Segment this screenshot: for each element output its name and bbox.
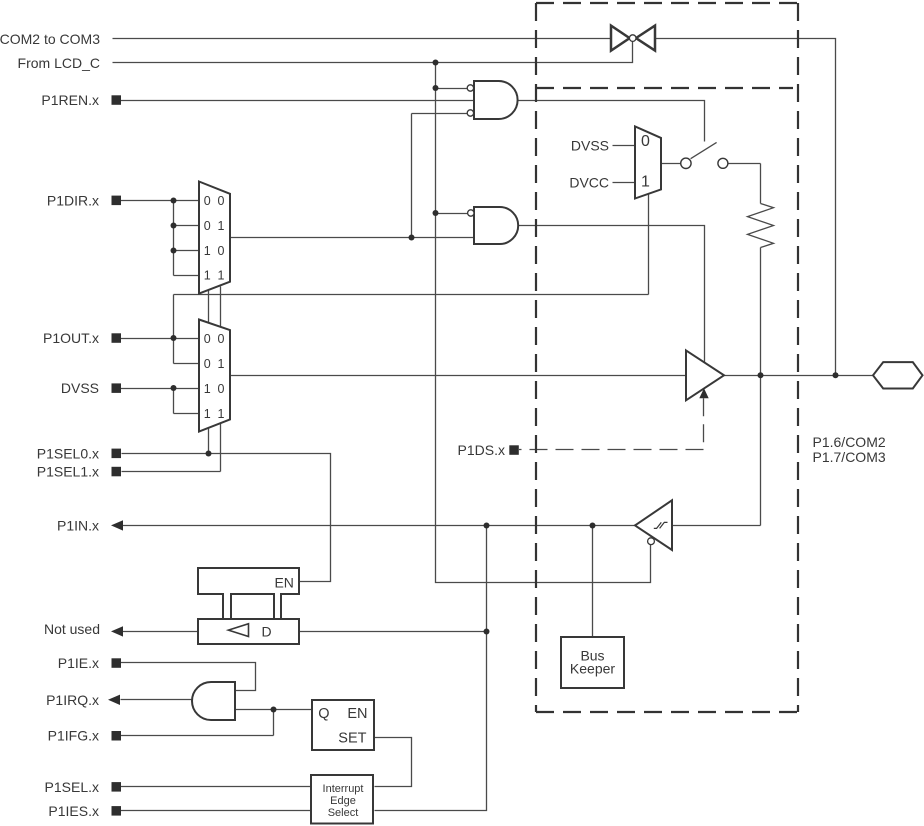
svg-text:1: 1 — [204, 244, 211, 258]
svg-text:DVSS: DVSS — [571, 138, 609, 154]
svg-text:1: 1 — [218, 407, 225, 421]
svg-text:P1IN.x: P1IN.x — [57, 517, 99, 533]
svg-text:P1IES.x: P1IES.x — [48, 803, 99, 819]
svg-text:COM2 to COM3: COM2 to COM3 — [0, 31, 100, 47]
svg-text:0: 0 — [218, 382, 225, 396]
svg-text:From LCD_C: From LCD_C — [18, 55, 100, 71]
svg-text:0: 0 — [204, 357, 211, 371]
svg-text:P1DS.x: P1DS.x — [458, 442, 505, 458]
svg-text:P1.6/COM2: P1.6/COM2 — [813, 434, 886, 450]
svg-text:0: 0 — [204, 332, 211, 346]
svg-text:P1DIR.x: P1DIR.x — [47, 192, 99, 208]
svg-text:P1REN.x: P1REN.x — [41, 92, 99, 108]
svg-text:1: 1 — [204, 382, 211, 396]
svg-text:1: 1 — [218, 219, 225, 233]
svg-text:Select: Select — [328, 807, 359, 819]
svg-text:1: 1 — [218, 357, 225, 371]
svg-text:0: 0 — [218, 194, 225, 208]
svg-text:EN: EN — [347, 706, 367, 722]
svg-text:P1SEL1.x: P1SEL1.x — [37, 464, 99, 480]
svg-text:1: 1 — [204, 407, 211, 421]
svg-text:DVCC: DVCC — [569, 174, 609, 190]
svg-text:P1IE.x: P1IE.x — [58, 655, 99, 671]
svg-text:P1.7/COM3: P1.7/COM3 — [813, 449, 886, 465]
svg-text:Q: Q — [318, 706, 329, 722]
svg-text:Not used: Not used — [44, 621, 100, 637]
svg-text:0: 0 — [641, 133, 650, 150]
svg-text:1: 1 — [218, 268, 225, 282]
svg-text:SET: SET — [338, 731, 366, 747]
svg-text:P1IRQ.x: P1IRQ.x — [46, 692, 99, 708]
svg-text:0: 0 — [204, 194, 211, 208]
svg-text:1: 1 — [641, 173, 650, 190]
svg-text:EN: EN — [274, 575, 293, 591]
svg-text:DVSS: DVSS — [61, 380, 99, 396]
svg-text:D: D — [261, 623, 271, 639]
svg-text:1: 1 — [204, 268, 211, 282]
svg-text:P1IFG.x: P1IFG.x — [48, 728, 99, 744]
svg-text:P1SEL0.x: P1SEL0.x — [37, 445, 99, 461]
svg-text:0: 0 — [204, 219, 211, 233]
svg-text:0: 0 — [218, 332, 225, 346]
svg-text:0: 0 — [218, 244, 225, 258]
svg-text:Edge: Edge — [330, 795, 356, 807]
svg-text:P1OUT.x: P1OUT.x — [43, 330, 99, 346]
svg-text:Keeper: Keeper — [570, 661, 615, 677]
svg-text:Interrupt: Interrupt — [323, 783, 364, 795]
svg-text:P1SEL.x: P1SEL.x — [45, 779, 99, 795]
